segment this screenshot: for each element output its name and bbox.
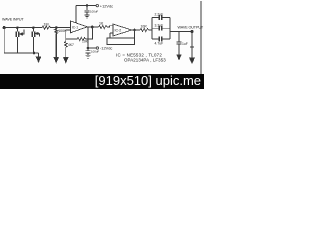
resistor R7 10R inline <box>140 28 148 31</box>
wire right border <box>200 1 202 74</box>
svg-text:1K: 1K <box>99 22 104 26</box>
wire IC1 V- down <box>87 28 89 48</box>
junction dot IC2 out <box>134 29 136 31</box>
junction dot IC1 out <box>91 26 93 28</box>
wire IC2 output <box>132 29 141 31</box>
junction dot C1 tee <box>17 27 19 29</box>
wire V- horizontal <box>88 47 96 49</box>
resistor R2 100K vertical <box>55 28 58 58</box>
svg-text:OPA2134PA , LF353: OPA2134PA , LF353 <box>124 57 166 62</box>
node input terminal <box>3 26 5 28</box>
wire input bus <box>4 27 42 29</box>
capacitor C6 middle <box>152 27 170 29</box>
node -V supply terminal <box>96 47 98 49</box>
junction dot ground bus <box>33 52 35 54</box>
svg-text:+12Vdc: +12Vdc <box>100 3 113 8</box>
svg-text:IC-1: IC-1 <box>72 26 78 30</box>
capacitor C2 shunt <box>32 28 34 53</box>
capacitor C4 decoupling bottom <box>86 48 91 55</box>
svg-text:10R: 10R <box>141 25 148 29</box>
svg-text:100uF: 100uF <box>91 50 99 54</box>
capacitor C3 decoupling top <box>85 6 90 16</box>
wire output load drop <box>190 32 194 59</box>
label C2 <box>37 34 39 37</box>
svg-text:1uF: 1uF <box>182 42 188 46</box>
ground under R2 <box>54 58 58 63</box>
svg-text:WAVE INPUT: WAVE INPUT <box>2 18 24 22</box>
label C1 <box>22 30 24 35</box>
svg-text:1M: 1M <box>44 23 49 27</box>
resistor R1 1M inline <box>42 26 50 29</box>
wire output <box>170 31 192 33</box>
op-amp U2 IC-2 <box>113 24 132 36</box>
svg-text:WAVE OUTPUT: WAVE OUTPUT <box>178 26 204 30</box>
op-amp U1 IC-1 <box>71 21 88 33</box>
wire left rail down <box>3 28 5 53</box>
ground under C4 <box>86 55 91 58</box>
svg-text:2.2uF: 2.2uF <box>155 13 164 17</box>
wire IC1 feedback to -input <box>66 30 71 39</box>
junction dot bus/divider <box>55 27 57 29</box>
wire to IC2 input <box>107 26 113 27</box>
capacitor C1 input shunt <box>16 28 18 53</box>
wire to cap bank <box>148 29 152 31</box>
ground arrow at bus end <box>38 53 40 57</box>
junction dot supply <box>86 5 88 7</box>
capacitor C5 top <box>152 17 170 19</box>
resistor R6 feedback box <box>107 38 135 45</box>
wire +V rail horizontal <box>76 5 96 7</box>
capacitor C8 zobel <box>177 32 182 56</box>
junction dot V- <box>87 47 89 49</box>
wire cap bank right rail <box>169 18 171 40</box>
wire bus after resistor <box>50 27 71 29</box>
ground under C3 <box>85 15 90 18</box>
svg-text:100uF: 100uF <box>90 10 98 14</box>
wire feedback drop <box>86 27 93 39</box>
wire IC1 output <box>87 26 99 28</box>
ground under R4 <box>64 58 68 63</box>
ground under output <box>190 58 195 63</box>
resistor R5 1K inline <box>99 25 107 28</box>
resistor R3 feedback 10K <box>66 37 86 40</box>
watermark bar <box>0 74 204 89</box>
capacitor C7 bottom <box>152 38 170 40</box>
junction dot C2 tee <box>33 27 35 29</box>
svg-text:-12Vdc: -12Vdc <box>100 46 112 51</box>
wire cap bank left rail <box>151 18 153 40</box>
svg-text:IC-2: IC-2 <box>115 29 122 33</box>
wire IC1 V+ pin vertical <box>75 6 77 23</box>
wire IC2 -input drop <box>110 33 113 38</box>
resistor R4 4K7 vertical <box>64 39 67 57</box>
svg-text:4.7uF: 4.7uF <box>155 42 164 46</box>
wire IC2 feedback drop <box>134 30 136 38</box>
ground under C8 <box>177 55 181 60</box>
svg-text:4K7: 4K7 <box>68 43 74 47</box>
junction dot output <box>191 30 193 32</box>
wire ground bus bottom-left <box>4 52 38 54</box>
node +V supply terminal <box>96 4 98 6</box>
svg-text:3.3uF: 3.3uF <box>155 23 164 27</box>
